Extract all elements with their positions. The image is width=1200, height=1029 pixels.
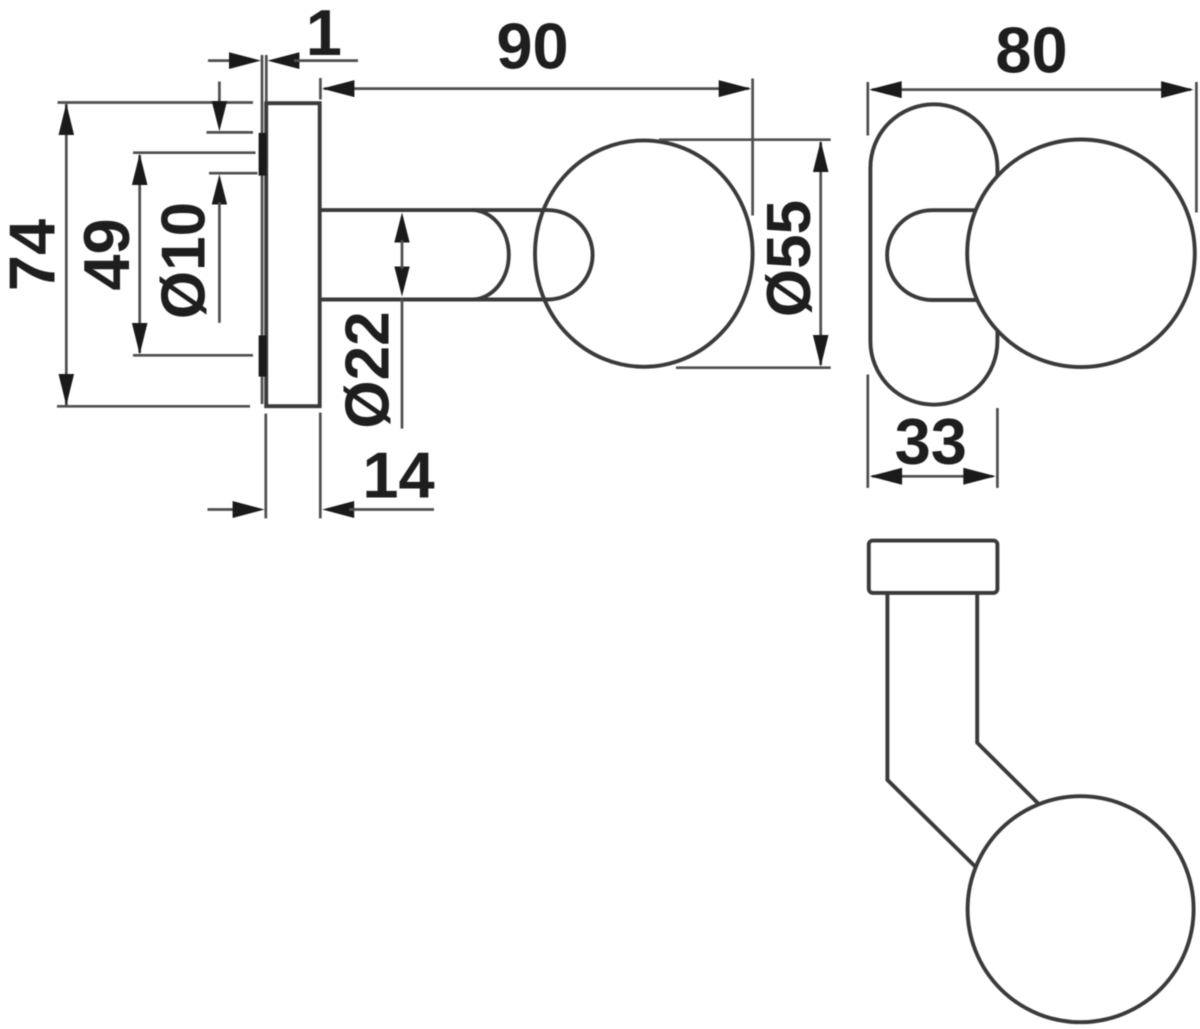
dimension 49 — [70, 153, 256, 356]
dimension 90 — [320, 10, 752, 216]
svg-text:Ø22: Ø22 — [333, 311, 402, 428]
dimension diameter 55 — [659, 140, 831, 368]
knob ball side — [535, 140, 753, 366]
knob neck stem — [320, 210, 593, 299]
svg-text:33: 33 — [895, 405, 967, 478]
svg-text:90: 90 — [496, 10, 568, 83]
dimension diameter 22 — [333, 212, 409, 428]
svg-text:49: 49 — [70, 218, 143, 290]
dimension 33 — [870, 405, 998, 488]
dimension 14 — [208, 413, 435, 519]
screw pin top — [259, 133, 267, 176]
knob ball front — [967, 140, 1195, 368]
knob ball top view — [968, 796, 1194, 1022]
neck right outline — [977, 593, 1039, 805]
svg-text:1: 1 — [306, 0, 342, 69]
dimension 74 — [0, 103, 253, 407]
svg-text:14: 14 — [362, 439, 434, 512]
neck sphere transition arc — [472, 210, 509, 299]
rose body side profile — [266, 103, 320, 406]
front view: oval rose with cranked knob, top right figure — [870, 104, 1194, 404]
top view: cranked knob from above, bottom right figure — [869, 541, 1194, 1023]
dimension 80 — [868, 14, 1197, 488]
dimension 1 — [208, 0, 358, 69]
svg-text:Ø55: Ø55 — [755, 200, 824, 317]
neck left outline — [887, 593, 976, 868]
rose in section from above — [869, 541, 998, 593]
svg-text:Ø10: Ø10 — [150, 202, 219, 319]
side view: door knob with oval rose, left figure — [259, 55, 753, 406]
backplate 1mm right line above rose — [265, 55, 268, 104]
screw pin bottom — [259, 335, 267, 376]
neck front — [887, 210, 988, 300]
svg-text:80: 80 — [995, 14, 1067, 87]
oval rose front — [870, 104, 997, 404]
svg-text:74: 74 — [0, 219, 69, 291]
dimension diameter 10 — [150, 82, 258, 323]
backplate 1mm left line — [261, 55, 264, 404]
